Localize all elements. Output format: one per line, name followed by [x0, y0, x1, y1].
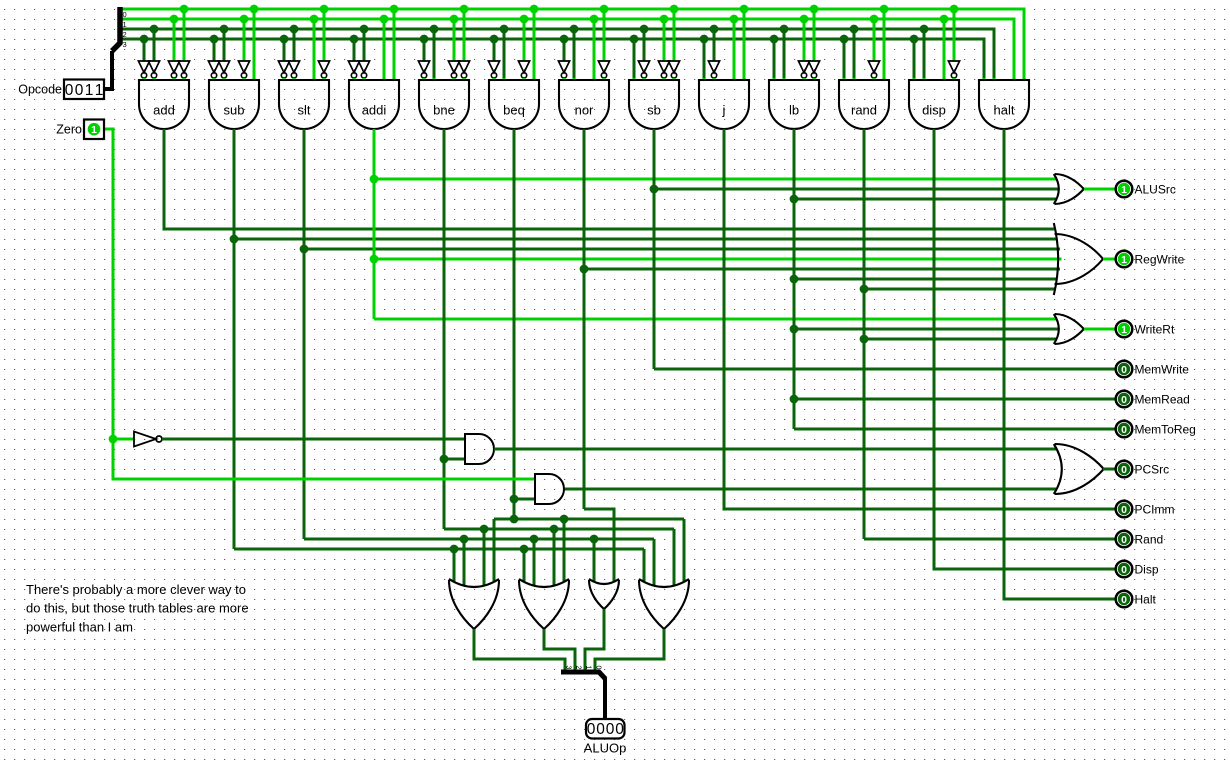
svg-text:0: 0: [1121, 564, 1127, 576]
svg-text:j: j: [722, 103, 726, 118]
svg-text:3: 3: [565, 666, 572, 670]
svg-text:1: 1: [585, 666, 592, 670]
svg-text:0: 0: [1121, 464, 1127, 476]
svg-text:MemWrite: MemWrite: [1135, 362, 1190, 376]
svg-text:0: 0: [596, 721, 605, 738]
svg-text:add: add: [153, 103, 175, 118]
svg-text:0: 0: [65, 82, 74, 99]
svg-text:0: 0: [75, 82, 84, 99]
svg-text:WriteRt: WriteRt: [1135, 322, 1175, 336]
svg-text:0: 0: [615, 721, 624, 738]
svg-text:1: 1: [91, 124, 97, 136]
svg-text:lb: lb: [789, 103, 799, 118]
svg-text:PCSrc: PCSrc: [1135, 462, 1170, 476]
svg-text:3: 3: [123, 40, 127, 49]
svg-text:rand: rand: [851, 103, 877, 118]
svg-text:0: 0: [1121, 504, 1127, 516]
svg-text:0: 0: [1121, 394, 1127, 406]
svg-text:halt: halt: [994, 103, 1015, 118]
svg-text:There's probably a more clever: There's probably a more clever way to: [26, 582, 246, 597]
svg-text:MemRead: MemRead: [1135, 392, 1190, 406]
svg-text:sub: sub: [224, 103, 245, 118]
svg-text:0: 0: [1121, 364, 1127, 376]
svg-text:sb: sb: [647, 103, 661, 118]
svg-text:0: 0: [123, 10, 127, 19]
svg-text:PCImm: PCImm: [1135, 502, 1175, 516]
svg-text:nor: nor: [575, 103, 594, 118]
svg-text:1: 1: [123, 20, 127, 29]
svg-text:ALUOp: ALUOp: [584, 741, 627, 756]
svg-text:Opcode: Opcode: [18, 83, 62, 97]
svg-text:0: 0: [1121, 534, 1127, 546]
svg-text:0: 0: [595, 666, 602, 670]
svg-text:Rand: Rand: [1135, 532, 1164, 546]
svg-text:0: 0: [587, 721, 596, 738]
svg-text:1: 1: [1121, 254, 1127, 266]
svg-text:2: 2: [575, 666, 582, 670]
svg-text:1: 1: [1121, 184, 1127, 196]
svg-text:slt: slt: [298, 103, 311, 118]
svg-text:0: 0: [1121, 594, 1127, 606]
svg-text:0: 0: [606, 721, 615, 738]
svg-text:2: 2: [123, 30, 127, 39]
svg-text:Disp: Disp: [1135, 562, 1159, 576]
svg-text:disp: disp: [922, 103, 946, 118]
svg-text:Halt: Halt: [1135, 592, 1157, 606]
svg-text:MemToReg: MemToReg: [1135, 422, 1196, 436]
svg-text:Zero: Zero: [56, 123, 82, 137]
svg-text:powerful than I am: powerful than I am: [26, 619, 133, 634]
svg-text:RegWrite: RegWrite: [1135, 252, 1185, 266]
svg-text:0: 0: [1121, 424, 1127, 436]
svg-text:beq: beq: [503, 103, 525, 118]
svg-text:ALUSrc: ALUSrc: [1135, 182, 1176, 196]
svg-text:addi: addi: [362, 103, 387, 118]
svg-text:bne: bne: [433, 103, 455, 118]
svg-text:1: 1: [1121, 324, 1127, 336]
svg-text:1: 1: [85, 82, 94, 99]
svg-text:1: 1: [95, 82, 104, 99]
svg-text:do this, but those truth table: do this, but those truth tables are more: [26, 601, 249, 616]
